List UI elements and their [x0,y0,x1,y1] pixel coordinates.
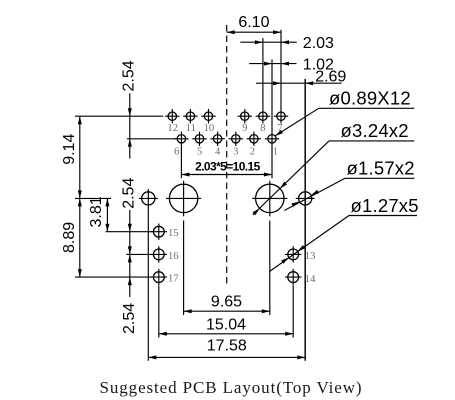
svg-text:15: 15 [168,228,179,239]
svg-text:9.65: 9.65 [211,293,242,310]
svg-text:Suggested PCB Layout(Top View): Suggested PCB Layout(Top View) [100,378,363,397]
svg-text:2.03: 2.03 [303,35,334,52]
svg-text:8.89: 8.89 [61,222,78,253]
hole 6 [174,132,188,158]
svg-text:3: 3 [233,147,238,158]
dim 15.04 [159,317,293,336]
svg-text:10: 10 [204,123,215,134]
hole 2 [247,132,261,158]
wire: hole 16 extension line [126,253,152,255]
svg-text:ø0.89X12: ø0.89X12 [329,88,411,109]
wire: top header row extension line [75,115,163,117]
dim 17.58 [148,338,305,360]
right small hole dia 1.57 [296,192,315,205]
wire: hole 17 extension line [75,276,152,278]
dim 2.54 top-left [121,60,138,158]
svg-text:ø3.24x2: ø3.24x2 [341,120,409,141]
svg-text:7: 7 [277,123,282,134]
label dia 1.57 x2 with leader to right small hole [284,158,414,211]
svg-text:6: 6 [174,147,179,158]
svg-text:6.10: 6.10 [238,14,269,31]
dim 9.14 [61,116,82,277]
svg-text:2.03*5=10.15: 2.03*5=10.15 [195,159,260,173]
svg-text:5: 5 [197,147,202,158]
hole 16 [151,246,179,262]
hole 15 [151,224,179,240]
svg-text:13: 13 [305,251,316,262]
hole 13 [285,246,315,262]
hole 3 [229,132,243,158]
dim 8.89 [61,198,82,277]
dim 2.03*5=10.15 [181,146,272,178]
dim 3.81 [88,196,109,231]
svg-text:17: 17 [168,274,179,285]
svg-text:11: 11 [186,123,196,134]
wire: left big hole down extension [183,221,185,316]
wire: hole 8 extension line [262,38,264,109]
hole 8 [256,109,270,134]
wire: bottom header row extension line [127,138,177,140]
label dia 1.27 x5 with leader to hole 13 [269,195,418,272]
dim 1.02 [249,56,334,73]
svg-text:9: 9 [242,123,247,134]
svg-text:17.58: 17.58 [207,338,247,355]
svg-text:12: 12 [167,123,178,134]
hole 1 [265,132,279,158]
svg-text:2.54: 2.54 [121,60,138,91]
hole 11 [183,109,197,134]
svg-text:1: 1 [273,147,278,158]
wire: hole 14 down extension [292,286,294,338]
hole 17 [151,269,179,285]
dim 2.69 [256,69,346,86]
hole 10 [201,109,215,134]
svg-text:8: 8 [260,123,265,134]
hole 5 [192,132,206,158]
hole 14 [285,269,316,285]
dim 9.65 [184,293,270,313]
svg-text:15.04: 15.04 [206,317,246,334]
label dia 3.24 x2 with leader through right big hole [253,120,415,215]
wire: hole 1 extension line top [271,60,273,132]
dim 2.54 mid-left and dim 2.54 bottom-left [121,178,138,334]
wire: hole 7 extension line [280,30,282,109]
svg-text:2.54: 2.54 [121,303,138,334]
left big hole dia 3.24 [166,181,201,217]
hole 4 [210,132,224,158]
svg-text:ø1.27x5: ø1.27x5 [351,195,419,216]
hole 9 [238,109,252,134]
svg-text:16: 16 [168,251,179,262]
svg-text:3.81: 3.81 [88,196,105,227]
label dia 0.89 X12 with leader to hole 1 [275,88,414,136]
svg-text:14: 14 [305,274,316,285]
svg-text:4: 4 [215,147,221,158]
wire: right big hole down extension [269,221,271,316]
left small hole dia 1.57 [139,189,158,361]
svg-text:2: 2 [250,147,255,158]
svg-text:ø1.57x2: ø1.57x2 [347,158,415,179]
wire: hole 15 extension line [106,231,152,233]
hole 12 [165,109,179,134]
dim 2.03 [240,35,334,52]
dim 6.10 [227,14,281,34]
wire: big-hole-row extension line [75,197,111,199]
svg-text:9.14: 9.14 [61,134,78,165]
centerline (dashed vertical) [226,25,228,288]
svg-text:2.54: 2.54 [121,178,138,209]
right big hole dia 3.24 [252,181,287,217]
wire: right small hole long extension line [304,79,306,361]
svg-text:2.69: 2.69 [315,69,346,86]
hole 7 [274,109,288,134]
wire: hole 17 down extension [158,286,160,338]
